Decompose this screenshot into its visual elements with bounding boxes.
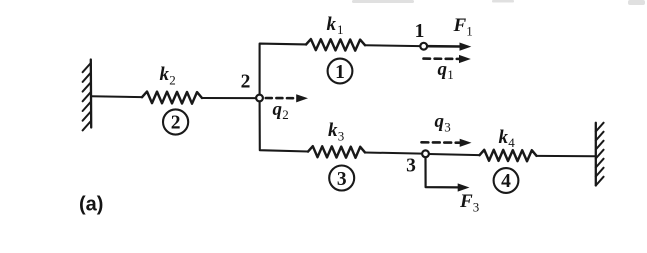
force F1 arrow bbox=[428, 43, 472, 51]
scan residue smudges top edge bbox=[352, 0, 645, 5]
svg-text:4: 4 bbox=[501, 171, 511, 192]
wire node 2 up to k1 branch bbox=[260, 44, 306, 95]
spring k3 bbox=[308, 146, 365, 158]
node 2 junction bbox=[256, 95, 263, 102]
wire node 3 to k4 bbox=[429, 154, 480, 155]
svg-text:1: 1 bbox=[335, 62, 345, 83]
displacement q2 arrow bbox=[266, 94, 308, 102]
svg-text:F1: F1 bbox=[453, 15, 473, 38]
wire wall to k2 bbox=[91, 95, 142, 98]
svg-text:k1: k1 bbox=[327, 14, 344, 37]
element 4 circle bbox=[494, 168, 519, 193]
svg-text:k2: k2 bbox=[160, 64, 176, 87]
svg-text:1: 1 bbox=[415, 21, 425, 42]
svg-text:q2: q2 bbox=[273, 99, 289, 122]
right wall support bbox=[596, 123, 604, 186]
wire k4 to right wall bbox=[537, 155, 596, 157]
spring k1 bbox=[306, 39, 365, 51]
displacement q1 arrow bbox=[424, 55, 471, 63]
wire k3 to node 3 bbox=[365, 153, 422, 154]
svg-text:3: 3 bbox=[406, 156, 416, 177]
node 3 junction bbox=[422, 150, 429, 157]
svg-text:(a): (a) bbox=[79, 194, 103, 216]
left wall support bbox=[83, 60, 92, 131]
force F3 arrow bbox=[426, 157, 470, 192]
svg-text:k4: k4 bbox=[499, 127, 516, 150]
displacement q3 arrow bbox=[422, 139, 472, 147]
node 1 junction bbox=[420, 43, 427, 50]
wire k1 to node 1 bbox=[365, 44, 420, 47]
spring k2 bbox=[142, 92, 202, 104]
svg-text:q3: q3 bbox=[435, 111, 451, 134]
wire k2 to node 2 bbox=[202, 97, 256, 99]
wire node 2 down to k3 branch bbox=[260, 102, 308, 152]
svg-text:k3: k3 bbox=[328, 120, 344, 143]
svg-text:q1: q1 bbox=[438, 59, 454, 82]
svg-text:F3: F3 bbox=[459, 191, 479, 214]
element 2 circle bbox=[163, 109, 188, 134]
svg-text:3: 3 bbox=[337, 169, 347, 190]
svg-text:2: 2 bbox=[241, 72, 251, 93]
element 3 circle bbox=[329, 166, 354, 191]
svg-text:2: 2 bbox=[171, 112, 181, 133]
spring k4 bbox=[480, 150, 537, 161]
element 1 circle bbox=[328, 59, 353, 84]
